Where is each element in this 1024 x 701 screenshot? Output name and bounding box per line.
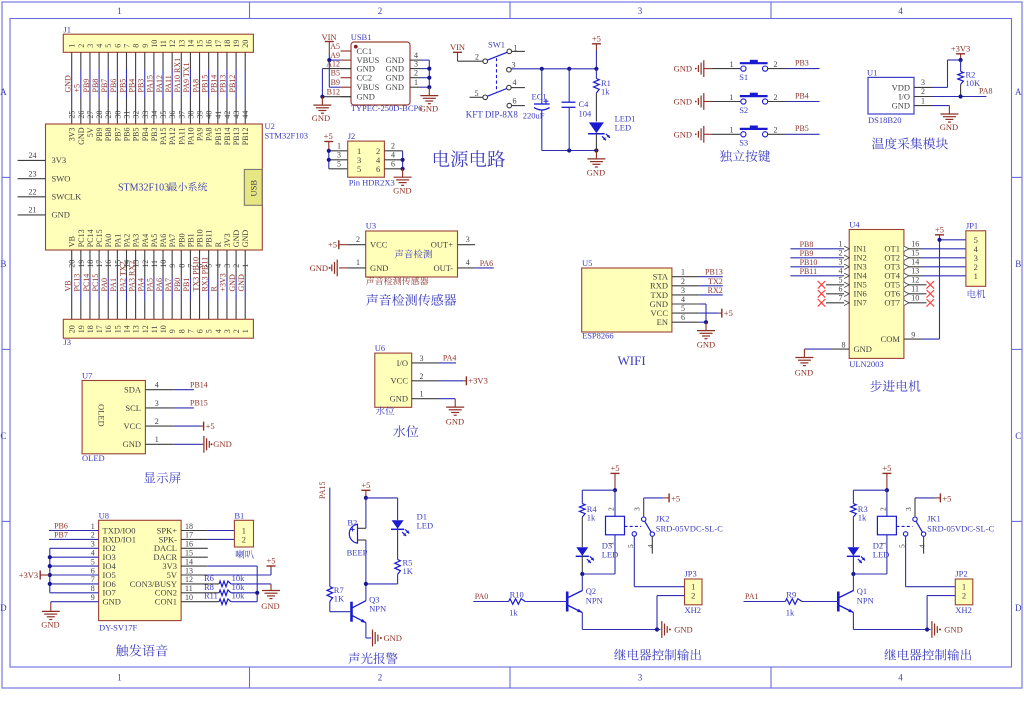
svg-text:PB12: PB12 <box>241 128 250 146</box>
svg-text:1: 1 <box>607 542 616 546</box>
connector J1 <box>63 25 253 53</box>
svg-text:GND: GND <box>357 92 375 102</box>
junction PA8 <box>959 94 963 98</box>
svg-text:4: 4 <box>214 329 223 333</box>
power port +3V3 (U1) <box>951 43 970 60</box>
svg-text:2: 2 <box>774 126 778 135</box>
wire GND to S3 <box>712 133 740 135</box>
label water level small <box>376 406 394 415</box>
svg-text:3: 3 <box>921 78 925 87</box>
svg-text:41: 41 <box>214 111 223 119</box>
resistor R8 10k <box>181 582 257 596</box>
svg-text:PB8: PB8 <box>800 240 814 249</box>
svg-text:PA8: PA8 <box>979 87 993 96</box>
svg-text:8: 8 <box>177 329 186 333</box>
svg-text:R9: R9 <box>786 589 796 599</box>
svg-text:PA9 TX1: PA9 TX1 <box>182 62 191 92</box>
svg-text:2: 2 <box>774 93 778 102</box>
svg-text:5: 5 <box>205 329 214 333</box>
svg-text:D: D <box>1015 603 1022 613</box>
svg-text:B5: B5 <box>331 69 340 78</box>
svg-text:+5: +5 <box>206 421 215 431</box>
LED D3 <box>576 540 619 574</box>
svg-text:6: 6 <box>196 329 205 333</box>
wire 3V3 pullup bus <box>181 566 257 602</box>
svg-text:SRD-05VDC-SL-C: SRD-05VDC-SL-C <box>656 523 723 533</box>
svg-text:2: 2 <box>839 248 843 257</box>
svg-text:PB13: PB13 <box>219 75 228 93</box>
svg-text:2: 2 <box>921 87 925 96</box>
svg-text:PB4: PB4 <box>795 91 809 100</box>
svg-text:PB9: PB9 <box>82 79 91 93</box>
svg-text:JK1: JK1 <box>927 513 941 523</box>
junction CON2 bus <box>255 591 259 595</box>
ground GND (U1) <box>940 106 959 132</box>
svg-text:LED: LED <box>602 550 619 560</box>
svg-text:29: 29 <box>104 111 113 119</box>
wire emitter rail Q1 <box>853 613 927 630</box>
wire VDD to +3V3 <box>932 60 961 87</box>
svg-text:PB8: PB8 <box>104 128 113 142</box>
svg-text:14: 14 <box>186 40 195 48</box>
svg-text:SWCLK: SWCLK <box>52 192 83 202</box>
power port VIN (usb area) <box>321 32 336 53</box>
svg-text:PA8: PA8 <box>191 79 200 93</box>
ground GND (S2) <box>674 93 712 110</box>
svg-text:6: 6 <box>376 164 380 174</box>
svg-text:PB3: PB3 <box>137 79 146 93</box>
svg-text:5: 5 <box>357 164 361 174</box>
svg-text:PA3: PA3 <box>132 234 141 248</box>
svg-text:PB0: PB0 <box>177 233 186 247</box>
svg-text:21: 21 <box>29 206 37 215</box>
caption temperature module <box>872 137 948 149</box>
wires ESP nets <box>699 268 723 295</box>
svg-text:+5: +5 <box>361 480 370 490</box>
power port +5 (relay contact JK2) <box>644 493 680 503</box>
svg-text:NPN: NPN <box>857 595 874 605</box>
svg-text:PC13: PC13 <box>73 274 82 292</box>
svg-text:CC2: CC2 <box>357 73 373 83</box>
svg-text:2: 2 <box>242 534 246 544</box>
ground GND (U7) <box>173 436 231 453</box>
svg-text:STM32F103: STM32F103 <box>265 131 308 141</box>
svg-text:DS18B20: DS18B20 <box>868 115 902 125</box>
svg-text:R11: R11 <box>204 591 218 601</box>
svg-text:TX2: TX2 <box>708 277 723 286</box>
junction +3V3 <box>959 58 963 62</box>
svg-text:J3: J3 <box>64 337 72 347</box>
wire +5 rail JK1 <box>853 490 887 503</box>
svg-text:16: 16 <box>205 40 214 48</box>
svg-text:40: 40 <box>205 111 214 119</box>
svg-text:PA6: PA6 <box>480 259 494 268</box>
capacitor C4 104 <box>562 69 592 151</box>
svg-text:6: 6 <box>91 566 95 575</box>
svg-text:2: 2 <box>155 417 159 426</box>
svg-text:PB15: PB15 <box>200 75 209 93</box>
svg-text:2: 2 <box>91 531 95 540</box>
svg-text:PB11: PB11 <box>205 230 214 248</box>
connector USB1 TYPEC-250D-BCP6 <box>326 32 422 113</box>
svg-text:B: B <box>1015 259 1021 269</box>
svg-text:17: 17 <box>214 40 223 48</box>
svg-text:JP1: JP1 <box>966 221 978 231</box>
junctions J2 left <box>327 149 331 162</box>
wire U4 GND <box>804 348 831 350</box>
svg-text:GND: GND <box>77 127 86 145</box>
svg-text:LED: LED <box>615 123 632 133</box>
svg-text:I/O: I/O <box>397 358 408 368</box>
USB sub-block of U2 <box>244 169 262 205</box>
svg-text:18: 18 <box>86 325 95 333</box>
svg-text:4: 4 <box>513 78 517 87</box>
svg-text:7: 7 <box>839 293 843 302</box>
svg-text:1: 1 <box>730 126 734 135</box>
svg-text:PB14: PB14 <box>190 381 208 390</box>
svg-text:GND: GND <box>103 597 121 607</box>
svg-text:2: 2 <box>391 142 395 151</box>
svg-text:GND: GND <box>41 620 59 630</box>
resistor base 1k (Q2) <box>509 589 526 617</box>
connector JP2 XH2 <box>955 569 973 615</box>
svg-text:J1: J1 <box>64 25 72 35</box>
ground GND (JK2) <box>657 621 693 638</box>
svg-text:GND: GND <box>310 263 328 273</box>
svg-text:PB4: PB4 <box>141 128 150 142</box>
svg-text:4: 4 <box>898 6 903 16</box>
svg-text:3: 3 <box>414 59 418 68</box>
svg-text:PA1: PA1 <box>113 234 122 248</box>
svg-text:220uF: 220uF <box>523 110 545 120</box>
svg-text:1: 1 <box>337 142 341 151</box>
svg-text:GND: GND <box>386 82 404 92</box>
svg-text:6: 6 <box>513 97 517 106</box>
ground GND (U8) <box>41 603 60 630</box>
svg-text:+5: +5 <box>935 224 944 234</box>
svg-text:PA1: PA1 <box>745 592 759 601</box>
power port +5 (U3) <box>328 240 347 250</box>
svg-text:18: 18 <box>223 40 232 48</box>
label STM32F103 minimal system CJK <box>168 182 207 191</box>
svg-text:+3V3: +3V3 <box>951 43 970 53</box>
svg-text:PA10: PA10 <box>186 128 195 146</box>
svg-text:11: 11 <box>185 584 193 593</box>
svg-text:2: 2 <box>774 60 778 69</box>
wire PA6 <box>475 259 494 268</box>
svg-text:NPN: NPN <box>586 595 603 605</box>
svg-text:PB5: PB5 <box>118 79 127 93</box>
junction Q2 collector node <box>580 572 584 576</box>
svg-text:2: 2 <box>356 235 360 244</box>
svg-text:PB11: PB11 <box>800 267 818 276</box>
svg-text:GND: GND <box>237 274 246 292</box>
svg-text:GND: GND <box>241 230 250 248</box>
svg-text:+5: +5 <box>671 494 680 504</box>
wire JP3 pin2 to GND <box>657 596 685 630</box>
junction alarm node <box>364 582 368 586</box>
svg-text:14: 14 <box>122 325 131 333</box>
svg-text:1K: 1K <box>334 594 345 604</box>
svg-text:PA2 TX2: PA2 TX2 <box>118 261 127 291</box>
switch SW1 KFT DIP-8X8 <box>466 40 525 120</box>
junction alarm +5 <box>364 496 368 500</box>
svg-text:13: 13 <box>911 266 919 275</box>
svg-text:S1: S1 <box>739 72 748 82</box>
relay switch JK1 <box>896 498 994 554</box>
svg-text:SRD-05VDC-SL-C: SRD-05VDC-SL-C <box>927 523 994 533</box>
resistor base 1k (Q1) <box>785 589 802 617</box>
svg-text:104: 104 <box>579 109 593 119</box>
svg-text:1k: 1k <box>509 607 518 617</box>
resistor R6 10k <box>181 573 271 587</box>
svg-text:PB4: PB4 <box>127 79 136 93</box>
wire PA15 to R7 <box>329 488 331 587</box>
svg-text:23: 23 <box>29 170 37 179</box>
svg-text:PA9: PA9 <box>196 128 205 142</box>
svg-text:GND: GND <box>261 601 279 611</box>
power port +5 (relay contact JK1) <box>915 493 951 503</box>
wire buzzer to node <box>365 540 367 584</box>
svg-text:10: 10 <box>159 325 168 333</box>
svg-text:+5: +5 <box>324 131 333 141</box>
junction GND rail JK2 <box>655 627 659 631</box>
svg-text:4: 4 <box>466 258 470 267</box>
svg-text:PB12: PB12 <box>228 75 237 93</box>
power port +5 (U8) <box>266 556 275 569</box>
no-connect X OT5-OT7 <box>921 281 934 307</box>
svg-text:39: 39 <box>196 111 205 119</box>
svg-text:OLED: OLED <box>82 453 105 463</box>
svg-text:3: 3 <box>638 673 643 683</box>
svg-text:GND: GND <box>697 340 715 350</box>
caption trigger voice <box>116 644 168 656</box>
svg-text:5: 5 <box>681 304 685 313</box>
ground GND (alarm) <box>373 630 402 647</box>
wire USB GND right <box>421 60 430 87</box>
svg-text:PB9: PB9 <box>95 128 104 142</box>
svg-text:PB3: PB3 <box>795 59 809 68</box>
svg-text:9: 9 <box>91 593 95 602</box>
svg-text:13: 13 <box>177 40 186 48</box>
svg-text:GND: GND <box>232 230 241 248</box>
ground GND (U5) <box>697 322 715 349</box>
svg-text:+5: +5 <box>610 463 619 473</box>
svg-text:PB15: PB15 <box>190 399 208 408</box>
svg-text:13: 13 <box>132 325 141 333</box>
svg-text:PA5: PA5 <box>146 278 155 292</box>
resistor R5 1K <box>395 558 414 584</box>
wire GND to S2 <box>712 101 740 103</box>
junction USB GND left <box>320 95 324 99</box>
svg-text:PA0: PA0 <box>100 278 109 292</box>
ground GND (usb right) <box>420 87 439 113</box>
svg-text:+3V3: +3V3 <box>19 570 38 580</box>
svg-text:R10: R10 <box>510 589 524 599</box>
svg-text:STM32F103: STM32F103 <box>118 183 169 194</box>
svg-text:EN: EN <box>657 317 668 327</box>
svg-text:PB13: PB13 <box>705 268 723 277</box>
wire relay common to JP3 <box>634 536 684 587</box>
svg-text:PA11: PA11 <box>177 128 186 145</box>
svg-text:VCC: VCC <box>391 376 409 386</box>
svg-text:EC1: EC1 <box>532 92 547 102</box>
svg-text:GND: GND <box>795 368 813 378</box>
IC U2 STM32F103 minimal system <box>18 111 308 268</box>
svg-text:1: 1 <box>414 78 418 87</box>
svg-text:42: 42 <box>223 111 232 119</box>
svg-text:11: 11 <box>911 284 919 293</box>
wire U1 GND <box>932 105 949 107</box>
svg-text:PA15: PA15 <box>318 482 327 500</box>
svg-text:16: 16 <box>185 540 193 549</box>
relay coil JK1 <box>853 490 896 574</box>
wire alarm top rail <box>366 498 398 528</box>
svg-text:PB6: PB6 <box>54 521 68 530</box>
wire I/O PA8 <box>932 87 993 97</box>
svg-text:VCC: VCC <box>370 240 388 250</box>
resistor R4 1k <box>580 504 598 548</box>
svg-text:OLED: OLED <box>97 404 107 427</box>
svg-text:A: A <box>1015 87 1022 97</box>
svg-text:TYPEC-250D-BCP6: TYPEC-250D-BCP6 <box>351 103 423 113</box>
power port +5 (JK1) <box>882 463 891 490</box>
svg-text:GND: GND <box>674 129 692 139</box>
svg-text:PB15: PB15 <box>214 128 223 146</box>
junctions J2 right <box>401 158 405 171</box>
wire U8 GND <box>51 602 99 603</box>
wire Q3 emitter to GND <box>366 623 371 638</box>
wire USB GND left <box>322 69 351 97</box>
svg-text:1: 1 <box>117 673 122 683</box>
svg-text:OUT+: OUT+ <box>431 240 453 250</box>
svg-text:6: 6 <box>681 313 685 322</box>
svg-text:1k: 1k <box>786 607 795 617</box>
svg-text:3: 3 <box>512 60 516 69</box>
svg-text:GND: GND <box>228 274 237 292</box>
svg-text:PA11: PA11 <box>164 75 173 92</box>
svg-text:SWO: SWO <box>52 174 71 184</box>
svg-text:GND: GND <box>587 168 605 178</box>
power port +3V3 (U6) <box>439 376 488 386</box>
svg-text:IN7: IN7 <box>854 298 867 308</box>
svg-text:4: 4 <box>918 544 927 548</box>
svg-text:24: 24 <box>29 151 37 160</box>
svg-text:VBUS: VBUS <box>357 82 380 92</box>
svg-text:PB10: PB10 <box>800 258 818 267</box>
svg-text:19: 19 <box>77 325 86 333</box>
svg-text:1: 1 <box>921 96 925 105</box>
svg-text:TX3 PB10: TX3 PB10 <box>191 257 200 291</box>
svg-text:PB7: PB7 <box>54 530 68 539</box>
svg-text:12: 12 <box>141 325 150 333</box>
IC U4 ULN2003 <box>826 220 921 369</box>
svg-text:VCC: VCC <box>124 421 142 431</box>
ground GND (J2) <box>393 169 412 196</box>
svg-text:PB1: PB1 <box>182 278 191 292</box>
wire JP2 pin2 to GND <box>927 596 955 630</box>
svg-text:VB: VB <box>64 280 73 291</box>
svg-text:SCL: SCL <box>125 403 141 413</box>
svg-text:PA7: PA7 <box>168 234 177 248</box>
svg-text:4: 4 <box>646 544 655 548</box>
junction +5 JK1 <box>885 488 889 492</box>
svg-text:+5: +5 <box>882 463 891 473</box>
svg-text:5: 5 <box>91 557 95 566</box>
svg-text:6: 6 <box>391 160 395 169</box>
svg-text:U5: U5 <box>582 258 592 268</box>
svg-text:10k: 10k <box>232 591 246 601</box>
svg-text:GND: GND <box>64 75 73 93</box>
svg-text:12: 12 <box>185 575 193 584</box>
svg-text:17: 17 <box>95 325 104 333</box>
svg-text:20: 20 <box>68 325 77 333</box>
svg-text:S2: S2 <box>739 105 748 115</box>
wire alarm node <box>366 584 398 601</box>
svg-text:8: 8 <box>132 44 141 48</box>
svg-text:GND: GND <box>393 186 411 196</box>
svg-text:3V3: 3V3 <box>52 155 67 165</box>
svg-text:PB5: PB5 <box>132 128 141 142</box>
svg-text:GND: GND <box>944 625 962 635</box>
svg-text:4: 4 <box>95 44 104 48</box>
ground GND (S3) <box>674 126 712 143</box>
svg-text:5: 5 <box>104 44 113 48</box>
caption water level <box>393 425 418 437</box>
svg-text:C: C <box>0 431 6 441</box>
svg-text:1k: 1k <box>858 513 867 523</box>
svg-text:7: 7 <box>91 575 95 584</box>
svg-text:C: C <box>1015 431 1021 441</box>
svg-text:5: 5 <box>475 89 479 98</box>
ground GND (U3) <box>310 260 348 277</box>
svg-text:10: 10 <box>911 293 919 302</box>
button S1 <box>730 60 778 82</box>
svg-text:1: 1 <box>730 60 734 69</box>
svg-text:+3V3: +3V3 <box>468 376 487 386</box>
svg-text:GND: GND <box>52 210 70 220</box>
wire S2 to PB4 <box>768 101 820 103</box>
svg-text:PB6: PB6 <box>122 128 131 142</box>
svg-text:PC14: PC14 <box>86 229 95 247</box>
svg-text:2: 2 <box>77 44 86 48</box>
power port +5 (U7) <box>173 421 214 431</box>
connector JP1 motor <box>966 221 986 287</box>
svg-text:PA12: PA12 <box>155 75 164 93</box>
svg-text:GND: GND <box>674 97 692 107</box>
wire VIN to VBUS <box>329 53 340 87</box>
svg-text:20: 20 <box>241 40 250 48</box>
ground GND (S1) <box>674 60 712 77</box>
svg-text:5V: 5V <box>86 127 95 137</box>
svg-text:PB13: PB13 <box>232 128 241 146</box>
svg-text:GND: GND <box>390 394 408 404</box>
wire VIN to SW1 <box>458 60 483 62</box>
svg-text:9: 9 <box>911 330 915 339</box>
IC U8 DY-SV17F <box>91 510 193 632</box>
wire S3 to PB5 <box>768 133 820 135</box>
wire +5 to JP1 pin5 and COM <box>921 240 966 339</box>
svg-text:JP2: JP2 <box>955 569 967 579</box>
svg-text:1: 1 <box>974 271 978 281</box>
svg-text:U2: U2 <box>265 121 275 131</box>
svg-text:2: 2 <box>691 591 695 601</box>
svg-text:PB0: PB0 <box>173 278 182 292</box>
wire GND to S1 <box>712 68 740 70</box>
svg-text:R: R <box>210 286 219 292</box>
LED D2 <box>847 540 890 574</box>
svg-text:ESP8266: ESP8266 <box>582 331 614 341</box>
